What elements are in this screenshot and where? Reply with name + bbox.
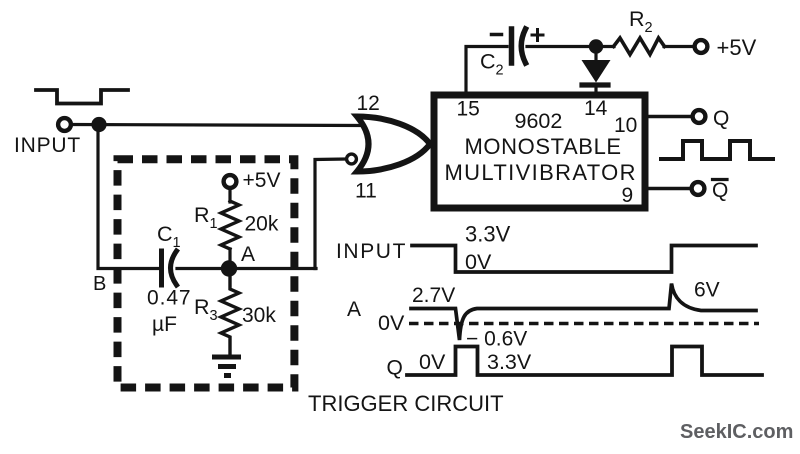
svg-text:MONOSTABLE: MONOSTABLE [465,134,622,159]
svg-text:Q: Q [713,107,729,130]
capacitor C2 left plate [509,29,515,63]
wire +5V terminal to R1 [228,186,231,202]
waveform INPUT [412,246,756,273]
or-gate U2 [357,117,430,172]
wire R2 to +5V terminal [664,45,694,48]
svg-text:A: A [241,243,255,266]
svg-text:µF: µF [152,313,177,336]
terminal +5V (top of R1) [224,175,237,188]
capacitor C2 right curved plate [521,29,525,63]
resistor R3 [221,276,239,355]
dashed trigger network box [118,159,295,387]
terminal Qbar [692,182,705,195]
svg-text:6V: 6V [694,279,720,302]
terminal Q [693,110,706,123]
Q output waveform symbol [661,141,773,159]
resistor R1 [221,201,239,249]
wire C1 to node A to riser [177,267,316,270]
waveform Q [407,347,762,376]
svg-text:INPUT: INPUT [336,240,407,263]
wire pin 15 to C2 [466,47,507,96]
svg-text:B: B [93,273,106,295]
input pulse waveform symbol [36,90,128,104]
svg-text:0.47: 0.47 [147,287,191,310]
svg-text:30k: 30k [242,304,276,327]
svg-text:20k: 20k [245,213,279,236]
wire pin 10 to Q terminal [648,115,691,118]
svg-text:9602: 9602 [515,109,563,133]
svg-text:14: 14 [584,97,608,120]
svg-text:3.3V: 3.3V [487,350,532,374]
svg-text:3.3V: 3.3V [465,222,511,247]
waveform A [411,284,756,341]
svg-text:2.7V: 2.7V [412,284,455,307]
svg-text:+5V: +5V [717,35,757,60]
svg-text:9: 9 [622,184,634,207]
capacitor C1 right curved plate [171,251,177,285]
terminal +5V right [695,40,708,53]
svg-text:15: 15 [457,98,480,121]
dashed 0V reference line [409,322,759,325]
svg-text:11: 11 [355,180,377,203]
plus sign [532,30,543,41]
svg-text:Q: Q [712,179,728,202]
svg-text:+5V: +5V [243,169,281,192]
svg-text:12: 12 [357,92,380,115]
svg-text:TRIGGER CIRCUIT: TRIGGER CIRCUIT [308,391,504,416]
wire input terminal to gate pin 12 [71,125,364,126]
gate input bubble pin 11 [347,154,357,164]
svg-text:Q: Q [387,357,403,380]
node A [221,260,237,276]
junction input node [91,117,106,132]
wire C2 to junction [527,45,614,48]
wire node A riser to gate pin 11 bubble [315,159,345,269]
svg-text:0V: 0V [378,311,405,335]
IC U1 9602 box [434,95,645,208]
minus sign [492,33,502,37]
svg-text:SeekIC.com: SeekIC.com [680,421,793,443]
junction dot diode anode [589,39,603,53]
svg-text:A: A [347,298,361,321]
capacitor C1 left plate [159,251,164,285]
diode CR1 [594,46,597,60]
terminal INPUT [58,118,71,131]
svg-text:INPUT: INPUT [14,134,81,157]
wire pin 9 to Qbar terminal [648,187,690,190]
wire R1 to node A [228,249,231,268]
ground [215,355,239,360]
svg-text:MULTIVIBRATOR: MULTIVIBRATOR [445,160,637,185]
wire input node down to node B [98,125,160,269]
svg-text:0V: 0V [419,350,446,374]
resistor R2 [614,38,665,55]
